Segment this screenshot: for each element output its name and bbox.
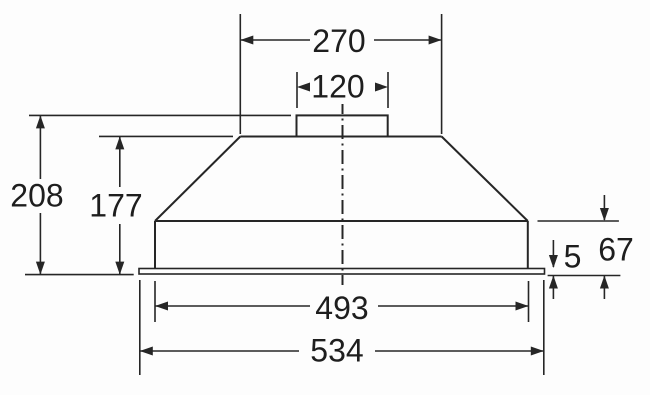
svg-text:120: 120 bbox=[311, 69, 364, 105]
svg-text:208: 208 bbox=[10, 178, 63, 214]
arrow 177 top bbox=[115, 136, 124, 149]
hood top edge bbox=[240, 136, 441, 138]
base plate bbox=[139, 269, 545, 275]
dim 534 extension lines bbox=[139, 280, 141, 375]
svg-text:67: 67 bbox=[598, 232, 634, 268]
dim 208 line bbox=[39, 116, 41, 179]
hood right side bbox=[527, 221, 529, 269]
dim 120 extension lines bbox=[296, 72, 298, 108]
dim 270 line bbox=[240, 39, 310, 41]
dim 67 arrow shafts bbox=[603, 195, 605, 220]
dim 177 line bbox=[119, 137, 121, 187]
arrow 5 bottom bbox=[549, 276, 558, 289]
arrow 270 right bbox=[429, 36, 442, 45]
arrow 493 left bbox=[155, 302, 168, 311]
dim 493 line bbox=[155, 305, 310, 307]
svg-text:177: 177 bbox=[89, 188, 142, 224]
arrow 208 top bbox=[36, 115, 45, 128]
hood left slope bbox=[155, 137, 240, 222]
hood left side bbox=[154, 221, 156, 269]
svg-text:534: 534 bbox=[310, 333, 363, 369]
hood right slope bbox=[442, 137, 528, 222]
dim 534 line bbox=[140, 350, 299, 352]
dim 493 extension lines bbox=[154, 281, 156, 322]
dim 5 arrow shafts bbox=[552, 240, 554, 267]
arrow 493 right bbox=[516, 302, 529, 311]
hood shoulder line bbox=[155, 220, 528, 222]
dim 270 extension lines bbox=[239, 14, 241, 134]
centerline bbox=[342, 104, 344, 285]
arrow 270 left bbox=[240, 36, 253, 45]
arrow 67 bottom bbox=[600, 276, 609, 289]
dim 208 extension lines bbox=[29, 114, 291, 116]
arrow 67 top bbox=[600, 208, 609, 221]
dim 67 extension lines bbox=[538, 220, 619, 222]
arrow 120 left bbox=[297, 83, 310, 92]
arrow 177 bottom bbox=[115, 262, 124, 275]
arrow 208 bottom bbox=[36, 262, 45, 275]
arrow 534 right bbox=[531, 347, 544, 356]
duct collar bbox=[297, 115, 388, 136]
dim 177 extension line bbox=[99, 135, 233, 137]
arrow 120 right bbox=[375, 83, 388, 92]
arrow 534 left bbox=[140, 347, 153, 356]
arrow 5 top bbox=[549, 255, 558, 268]
svg-text:270: 270 bbox=[312, 23, 365, 59]
svg-text:493: 493 bbox=[315, 290, 368, 326]
svg-text:5: 5 bbox=[564, 239, 582, 275]
